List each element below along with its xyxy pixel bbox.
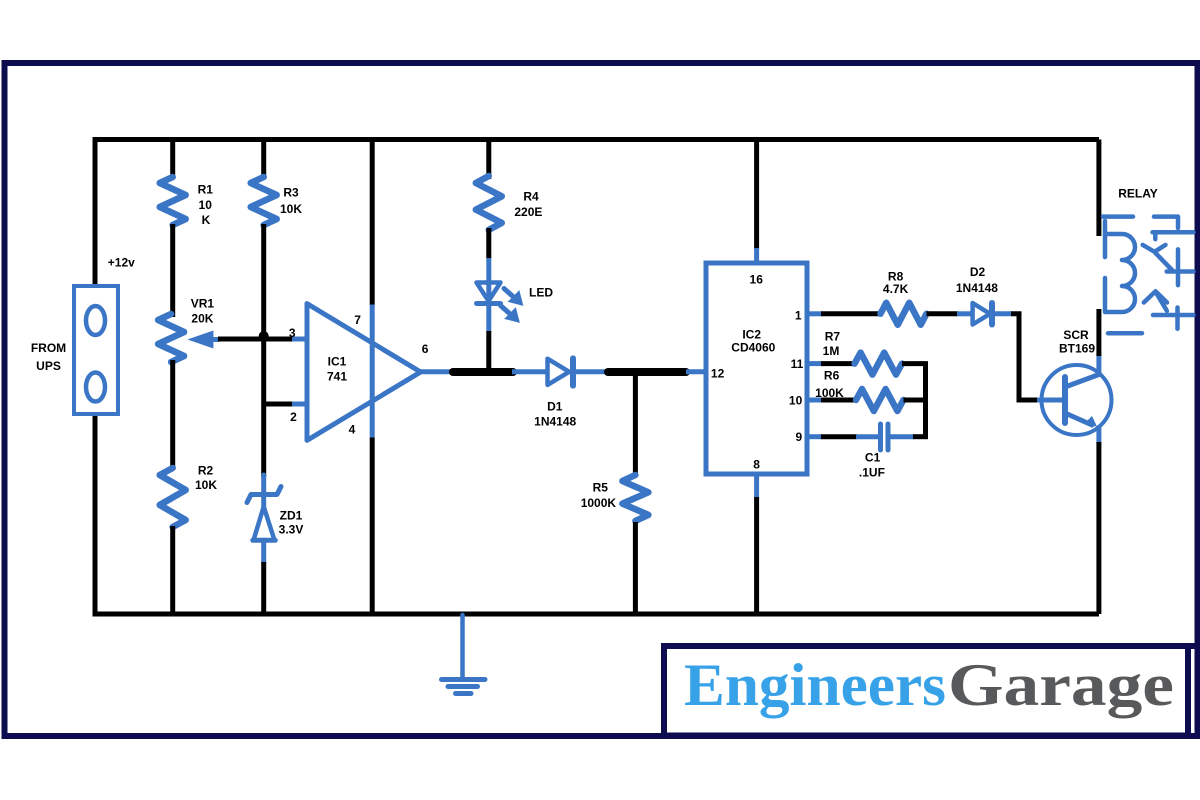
svg-text:+12v: +12v <box>108 256 135 270</box>
svg-text:1M: 1M <box>823 344 840 358</box>
wire pin10 to R6 <box>807 398 822 403</box>
svg-text:10K: 10K <box>280 202 302 216</box>
op-amp IC1 741 <box>307 304 421 441</box>
svg-text:IC2: IC2 <box>742 328 761 342</box>
svg-text:20K: 20K <box>191 312 213 326</box>
svg-text:K: K <box>202 213 211 227</box>
wire D1 to IC2 pin12 <box>576 369 606 374</box>
svg-text:SCR: SCR <box>1063 328 1089 342</box>
ground <box>442 615 486 694</box>
wire column5 upper <box>486 140 491 180</box>
svg-text:CD4060: CD4060 <box>731 341 775 355</box>
wire D2 to SCR gate elbow <box>994 311 1012 316</box>
capacitor C1 <box>881 424 889 450</box>
svg-text:LED: LED <box>529 286 553 300</box>
svg-text:D2: D2 <box>970 265 986 279</box>
relay K1 <box>1103 217 1194 334</box>
svg-text:8: 8 <box>753 457 760 471</box>
resistor R7 <box>855 353 902 375</box>
svg-text:11: 11 <box>791 357 804 371</box>
wire left column lower <box>93 412 98 617</box>
wire pin3 horizontal <box>262 337 293 342</box>
LED diode <box>477 283 501 332</box>
svg-text:R3: R3 <box>283 186 299 200</box>
resistor R2 <box>160 468 186 527</box>
diode D2 <box>973 303 992 325</box>
resistor R6 <box>856 389 903 411</box>
resistor R1 <box>160 177 186 225</box>
resistor R8 <box>881 303 927 325</box>
wire R6 to mini rail <box>904 398 929 403</box>
svg-text:3.3V: 3.3V <box>279 523 304 537</box>
SCR BT169 <box>1042 365 1112 435</box>
resistor R4 <box>476 176 502 230</box>
LED arrows <box>501 289 523 322</box>
svg-text:R8: R8 <box>888 269 904 283</box>
svg-text:UPS: UPS <box>36 359 61 373</box>
zener diode ZD1 <box>247 475 281 563</box>
svg-text:220E: 220E <box>514 205 542 219</box>
wire column6 R5 <box>633 372 638 477</box>
svg-text:D1: D1 <box>547 399 563 413</box>
wire SCR cathode <box>1096 426 1101 443</box>
IC2 CD4060 box <box>706 263 807 474</box>
svg-text:IC1: IC1 <box>328 355 347 369</box>
wire column3 upper <box>261 140 266 180</box>
wire pin8 column <box>754 474 759 498</box>
svg-text:12: 12 <box>711 367 725 381</box>
svg-text:10: 10 <box>199 198 213 212</box>
node junction dot <box>259 331 269 341</box>
diode D1 <box>548 358 574 385</box>
wire column6 below R5 <box>633 522 638 614</box>
wire column2 between VR1 and R2 <box>170 360 175 470</box>
wire mini rail <box>923 364 928 437</box>
svg-text:1N4148: 1N4148 <box>534 414 576 428</box>
wire column3 R3 to ZD1 <box>261 224 266 477</box>
svg-text:VR1: VR1 <box>191 296 215 310</box>
svg-text:BT169: BT169 <box>1059 342 1095 356</box>
VR1 wiper arrow <box>187 331 213 349</box>
wire bottom rail <box>95 612 1099 617</box>
wire pin9 to C1 <box>807 434 822 439</box>
wire pin16 column <box>754 140 759 250</box>
svg-text:1N4148: 1N4148 <box>956 281 998 295</box>
svg-text:Garage: Garage <box>948 652 1174 718</box>
connector J1 FROM UPS <box>74 286 118 414</box>
wire left column upper <box>93 137 98 288</box>
svg-text:R2: R2 <box>198 463 214 477</box>
wire column3 below ZD1 <box>261 562 266 614</box>
wire C1 to mini rail <box>890 434 914 439</box>
wire column2 upper <box>170 140 175 180</box>
potentiometer VR1 <box>158 314 184 362</box>
wire R7 to mini rail <box>902 361 928 366</box>
resistor R5 <box>622 475 648 521</box>
svg-text:ZD1: ZD1 <box>280 508 303 522</box>
svg-text:16: 16 <box>750 273 764 287</box>
wire column2 below R2 <box>170 526 175 614</box>
wire pin1 to R8 <box>807 311 822 316</box>
svg-text:10: 10 <box>789 393 803 407</box>
svg-text:9: 9 <box>796 430 803 444</box>
wire R4 to LED <box>486 228 491 259</box>
wire op-amp output <box>421 369 453 374</box>
svg-text:FROM: FROM <box>31 341 66 355</box>
svg-text:R4: R4 <box>523 189 539 203</box>
svg-text:R1: R1 <box>198 182 214 196</box>
svg-text:4: 4 <box>349 423 356 437</box>
wire column4 through op-amp <box>370 140 375 306</box>
wire relay column lower <box>1096 309 1101 356</box>
svg-text:1: 1 <box>795 309 802 323</box>
wire LED to output node <box>486 331 491 374</box>
svg-text:.1UF: .1UF <box>859 466 885 480</box>
svg-text:C1: C1 <box>865 450 881 464</box>
svg-text:741: 741 <box>327 370 347 384</box>
svg-text:R5: R5 <box>593 480 609 494</box>
wire relay column upper <box>1096 140 1101 237</box>
wire top rail <box>95 137 1099 142</box>
wire pin11 to R7 <box>807 361 822 366</box>
svg-text:6: 6 <box>422 342 429 356</box>
svg-text:2: 2 <box>290 410 297 424</box>
wire SCR anode <box>1096 355 1101 374</box>
wire column2 between R1 and VR1 <box>170 224 175 317</box>
svg-text:10K: 10K <box>195 478 217 492</box>
wire pin2 horizontal <box>262 402 294 407</box>
svg-text:R7: R7 <box>825 330 841 344</box>
svg-text:100K: 100K <box>815 386 844 400</box>
svg-text:RELAY: RELAY <box>1118 187 1158 201</box>
wire R8 to D2 <box>927 311 959 316</box>
wire VR1 wiper to node <box>218 337 264 342</box>
svg-text:4.7K: 4.7K <box>883 282 909 296</box>
svg-text:Engineers: Engineers <box>684 652 946 718</box>
svg-text:3: 3 <box>289 326 296 340</box>
logo box <box>664 646 1188 736</box>
svg-text:1000K: 1000K <box>581 496 617 510</box>
svg-text:7: 7 <box>354 313 361 327</box>
svg-text:R6: R6 <box>824 369 840 383</box>
resistor R3 <box>251 177 277 225</box>
